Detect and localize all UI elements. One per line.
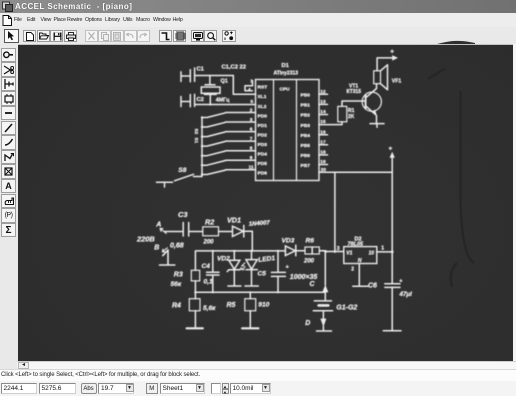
svg-text:PB7: PB7 — [301, 163, 311, 169]
switch bus wire — [194, 118, 203, 177]
svg-text:PB4: PB4 — [301, 133, 311, 139]
switch row PD3 pin 7 — [201, 136, 256, 147]
IC left pin names — [258, 84, 268, 176]
svg-text:PB1: PB1 — [301, 103, 311, 109]
svg-text:200: 200 — [203, 239, 215, 245]
svg-text:CPU: CPU — [280, 87, 291, 93]
regulator pin2 ground — [353, 264, 368, 287]
resistor R3 56k — [171, 270, 200, 292]
svg-text:S2: S2 — [194, 129, 199, 135]
RST step wire — [245, 81, 253, 91]
svg-text:0,1: 0,1 — [204, 279, 213, 286]
svg-text:1: 1 — [381, 246, 384, 252]
svg-text:S1: S1 — [194, 138, 199, 144]
svg-text:V1: V1 — [346, 250, 352, 256]
svg-text:19: 19 — [320, 159, 326, 165]
save — [50, 30, 63, 42]
switch row PD0 pin 2 — [201, 107, 256, 118]
svg-text:XL2: XL2 — [258, 104, 267, 110]
svg-text:PD0: PD0 — [258, 113, 268, 119]
svg-text:13: 13 — [320, 99, 326, 105]
switch row PD2 pin 6 — [201, 126, 256, 137]
junction node regulator input — [324, 250, 327, 253]
select tool button (pressed) — [4, 29, 19, 43]
svg-text:VF1: VF1 — [392, 79, 402, 85]
svg-text:В: В — [154, 245, 159, 252]
svg-text:C1,C2 22: C1,C2 22 — [222, 65, 247, 71]
svg-text:R2: R2 — [205, 218, 214, 227]
switch row PD4 pin 8 — [201, 146, 256, 157]
svg-text:6: 6 — [250, 126, 253, 132]
svg-text:2: 2 — [351, 266, 354, 272]
terminal A with arrow — [155, 222, 182, 234]
monitor — [191, 30, 204, 42]
svg-text:2K: 2K — [348, 114, 355, 120]
switch row PD1 pin 3 — [201, 117, 256, 128]
svg-text:PB2: PB2 — [301, 113, 311, 119]
svg-text:14: 14 — [320, 109, 326, 115]
svg-text:11: 11 — [249, 165, 254, 171]
plus supply arrow right — [389, 146, 395, 284]
ground for VT1 emitter — [370, 124, 384, 128]
supply line below C6 to ground — [383, 287, 401, 330]
svg-text:D1: D1 — [282, 63, 290, 69]
crystal Q1 — [201, 76, 230, 105]
capacitor C1 — [181, 67, 233, 82]
svg-text:PD5: PD5 — [258, 161, 268, 167]
svg-text:ATiny2313: ATiny2313 — [274, 71, 299, 77]
svg-text:R3: R3 — [174, 272, 183, 279]
diode VD1 1N4007 — [227, 215, 271, 237]
svg-text:PD1: PD1 — [258, 123, 268, 129]
svg-text:PB6: PB6 — [301, 153, 311, 159]
wire C1 node down to XL1 — [233, 76, 255, 95]
svg-text:12: 12 — [320, 89, 326, 95]
ground for S8 — [157, 182, 173, 187]
svg-text:220В: 220В — [136, 234, 155, 243]
zener VD2 — [217, 250, 241, 286]
svg-text:5,6к: 5,6к — [203, 305, 216, 312]
svg-text:PD3: PD3 — [258, 142, 268, 148]
svg-text:G1-G2: G1-G2 — [336, 305, 357, 312]
svg-text:PD6: PD6 — [258, 171, 268, 177]
IC right pin stubs 12-19 — [319, 89, 328, 165]
svg-text:1000×35: 1000×35 — [290, 274, 318, 281]
resistor R6 200 — [303, 238, 344, 265]
svg-text:1N4007: 1N4007 — [249, 220, 271, 227]
svg-text:+: + — [390, 49, 394, 56]
IC right pin names — [301, 93, 311, 169]
svg-text:PD2: PD2 — [258, 133, 268, 139]
svg-text:PB5: PB5 — [301, 143, 311, 149]
svg-text:5: 5 — [251, 99, 254, 105]
svg-text:3: 3 — [250, 117, 253, 123]
LED LED1 — [242, 250, 276, 286]
svg-text:A: A — [155, 222, 161, 229]
svg-text:4: 4 — [248, 87, 251, 93]
resistor R2 200 — [203, 218, 233, 246]
svg-text:PD4: PD4 — [258, 152, 268, 158]
negative rail — [195, 291, 324, 293]
svg-text:LED1: LED1 — [258, 255, 276, 264]
wire VCC down to regulator output — [334, 172, 336, 251]
resistor R1 2K — [319, 101, 365, 125]
capacitor C2 — [181, 94, 256, 107]
svg-text:+: + — [286, 264, 289, 270]
dark bump above canvas — [437, 40, 475, 44]
chip/grid — [173, 30, 186, 42]
svg-text:C1: C1 — [197, 67, 205, 73]
op IC D1 ATtiny2313 box — [256, 63, 320, 181]
svg-text:Q1: Q1 — [221, 79, 228, 85]
transistor VT1 KT315 — [347, 84, 382, 123]
svg-text:7: 7 — [250, 136, 253, 142]
scan watermark J curve — [428, 69, 474, 288]
resistor R5 910 — [227, 292, 270, 328]
ground symbol for B input — [160, 250, 175, 265]
switch row PD5 pin 9 — [201, 155, 256, 166]
junction node X2 — [209, 103, 211, 105]
svg-text:D: D — [305, 320, 310, 327]
diode VD3 — [282, 238, 306, 256]
record/macro — [222, 30, 236, 42]
print — [64, 30, 77, 42]
svg-text:10: 10 — [369, 251, 375, 257]
capacitor C5 1000x35 — [258, 250, 318, 293]
svg-text:C2: C2 — [197, 97, 204, 103]
svg-text:C3: C3 — [178, 210, 188, 219]
wire speaker to plus arrow — [377, 49, 397, 71]
greyed: cut copy paste undo redo — [85, 30, 98, 42]
svg-text:18: 18 — [320, 150, 326, 156]
svg-text:XL1: XL1 — [258, 94, 267, 100]
svg-text:2: 2 — [250, 107, 253, 113]
svg-text:4МГц: 4МГц — [216, 97, 230, 103]
regulator output wire pin1 — [377, 251, 392, 253]
svg-text:200: 200 — [303, 259, 315, 265]
svg-text:VD2: VD2 — [217, 255, 230, 262]
svg-text:VD1: VD1 — [227, 215, 241, 224]
svg-text:RST: RST — [258, 84, 268, 90]
switch row PD6 pin 11 — [201, 165, 256, 176]
svg-text:910: 910 — [258, 302, 269, 309]
svg-text:0,68: 0,68 — [170, 242, 184, 249]
svg-text:C: C — [310, 281, 316, 288]
svg-text:PB0: PB0 — [301, 93, 311, 99]
battery G1-G2 — [305, 252, 357, 332]
document icon in menubar — [2, 15, 12, 26]
svg-text:3: 3 — [337, 246, 340, 252]
speaker VF1 — [374, 65, 402, 90]
svg-text:PB3: PB3 — [301, 123, 311, 129]
svg-text:9: 9 — [250, 155, 253, 161]
pin 20 VCC wire — [319, 167, 392, 173]
svg-text:78L05: 78L05 — [348, 242, 365, 248]
svg-text:17: 17 — [320, 139, 326, 145]
new — [23, 30, 36, 42]
svg-text:47μl: 47μl — [399, 291, 413, 298]
capacitor C4 0,1 — [202, 250, 220, 293]
app icon — [2, 1, 13, 12]
svg-text:КТ315: КТ315 — [347, 89, 362, 95]
svg-text:S8: S8 — [178, 167, 186, 174]
svg-text:8: 8 — [250, 146, 253, 152]
svg-text:VD3: VD3 — [282, 238, 295, 245]
wire tool — [159, 30, 172, 42]
resistor R4 5,6k — [172, 292, 216, 328]
svg-text:C5: C5 — [258, 271, 267, 278]
terminal B with arrow — [154, 245, 167, 252]
dc rail wire — [195, 251, 285, 270]
capacitor C3 0,68 — [170, 210, 203, 249]
capacitor C6 47u — [368, 278, 412, 298]
svg-text:56к: 56к — [171, 281, 182, 288]
svg-text:C4: C4 — [202, 263, 211, 270]
svg-text:R5: R5 — [227, 302, 236, 309]
svg-text:+: + — [399, 278, 402, 284]
svg-text:+: + — [389, 146, 393, 153]
open — [37, 30, 50, 42]
svg-text:1: 1 — [250, 79, 253, 85]
regulator D2 78L05 — [337, 236, 385, 272]
svg-text:C6: C6 — [368, 283, 377, 290]
zoom — [204, 30, 217, 42]
labels S2 S1 rotated — [194, 129, 199, 144]
svg-text:R4: R4 — [172, 303, 181, 310]
svg-text:16: 16 — [320, 129, 326, 135]
wire VD1 down to rail — [251, 231, 253, 251]
switch S8 — [175, 167, 194, 181]
svg-text:R6: R6 — [306, 238, 315, 245]
